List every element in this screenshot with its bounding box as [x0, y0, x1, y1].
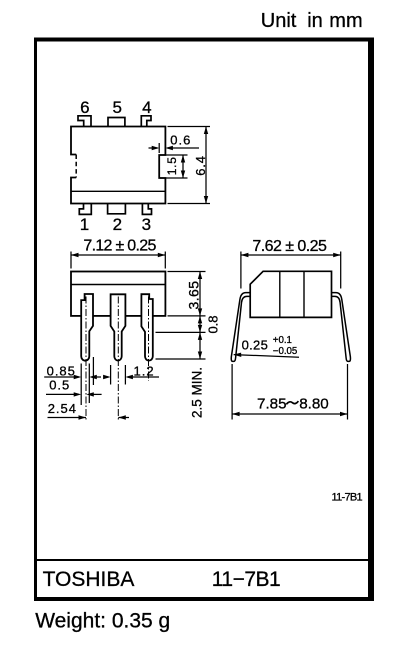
svg-text:5: 5 — [112, 98, 121, 117]
svg-text:0.25: 0.25 — [242, 337, 269, 352]
svg-text:0.85: 0.85 — [47, 363, 76, 378]
svg-text:2: 2 — [113, 215, 122, 234]
svg-text:6: 6 — [80, 98, 89, 117]
svg-text:1.5: 1.5 — [165, 156, 179, 175]
svg-text:6.4: 6.4 — [193, 155, 208, 175]
svg-text:11-7B1: 11-7B1 — [332, 492, 363, 504]
svg-text:in: in — [307, 10, 323, 32]
svg-text:1.2: 1.2 — [134, 363, 155, 378]
svg-text:Unit: Unit — [261, 10, 297, 32]
svg-text:7.12 ± 0.25: 7.12 ± 0.25 — [83, 238, 156, 255]
svg-text:3.65: 3.65 — [185, 281, 201, 310]
svg-text:1: 1 — [80, 215, 89, 234]
svg-text:11−7B1: 11−7B1 — [212, 568, 280, 591]
svg-text:0.6: 0.6 — [170, 133, 191, 148]
svg-text:mm: mm — [329, 10, 362, 32]
svg-text:7.85: 7.85 — [257, 396, 287, 413]
svg-text:3: 3 — [142, 215, 151, 234]
svg-text:0.5: 0.5 — [49, 378, 70, 393]
svg-text:4: 4 — [142, 98, 151, 117]
svg-text:−0.05: −0.05 — [273, 346, 298, 357]
svg-text:7.62 ± 0.25: 7.62 ± 0.25 — [252, 238, 327, 255]
svg-text:8.80: 8.80 — [299, 396, 329, 413]
svg-text:2.54: 2.54 — [48, 401, 77, 416]
svg-text:0.8: 0.8 — [206, 315, 221, 333]
svg-text:TOSHIBA: TOSHIBA — [43, 568, 135, 591]
svg-text:Weight: 0.35 g: Weight: 0.35 g — [35, 609, 170, 632]
svg-text:2.5 MIN.: 2.5 MIN. — [190, 367, 205, 418]
svg-text:+0.1: +0.1 — [273, 335, 292, 346]
